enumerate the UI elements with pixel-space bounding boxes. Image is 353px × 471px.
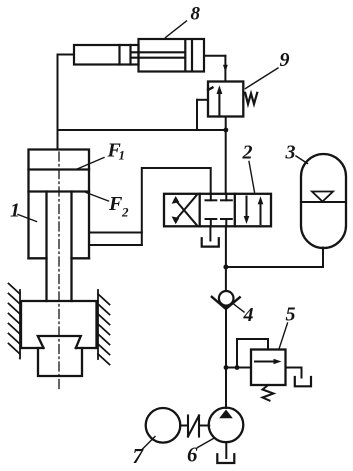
svg-text:6: 6: [187, 443, 198, 467]
coupling: [180, 425, 188, 427]
cylinder 1: [29, 150, 90, 302]
svg-text:F: F: [108, 193, 123, 215]
valve 9 internal arrow: [218, 92, 220, 117]
relief valve 5 spring: [263, 385, 274, 401]
wire to relief valve: [226, 367, 251, 369]
valve 2 (4/3 directional valve): [164, 194, 271, 227]
label leader F2: [86, 193, 109, 202]
valve 2 tank stub: [209, 226, 211, 240]
svg-text:8: 8: [191, 4, 201, 25]
svg-text:3: 3: [285, 142, 296, 164]
cylinder 8: [74, 39, 204, 72]
valve 2 centre position blocked ports: [206, 194, 232, 227]
wire main line valve2 to accumulator junction and check valve: [225, 226, 227, 291]
label leader 4: [233, 304, 244, 313]
wire check valve to pump: [225, 307, 227, 408]
pump 6: [209, 408, 244, 443]
valve 9 pilot line: [197, 99, 208, 101]
node junction dot y130: [224, 128, 229, 133]
tank symbol pump: [217, 454, 234, 463]
svg-text:1: 1: [10, 200, 20, 222]
wire accumulator branch: [226, 266, 323, 268]
svg-text:4: 4: [243, 304, 254, 326]
svg-text:2: 2: [242, 142, 253, 164]
label leader 8: [166, 21, 187, 38]
relief valve 5: [251, 350, 286, 386]
check valve 4: [219, 291, 234, 306]
ground hatched wall left: [9, 284, 21, 359]
press slab: [21, 301, 97, 376]
valve 9 (sequence valve): [208, 82, 243, 117]
relief valve 5 pilot line: [237, 339, 268, 368]
cylinder 1 port stub: [89, 232, 142, 234]
label leader 3: [296, 156, 308, 164]
wire horizontal rail y=130 to main line: [58, 129, 226, 131]
workpiece dovetail: [38, 336, 81, 348]
svg-text:9: 9: [280, 49, 290, 71]
relief valve 5 drain: [286, 368, 302, 378]
svg-text:5: 5: [286, 304, 296, 326]
svg-text:2: 2: [121, 205, 129, 220]
valve 2 right position arrows: [246, 197, 248, 219]
label leader 9: [246, 68, 279, 89]
valve 9 bottom port wire: [225, 117, 227, 195]
valve 9 spring: [245, 93, 257, 104]
label leader 2: [249, 162, 255, 193]
node relief junction: [224, 365, 229, 370]
wire F2 pipe to valve 2: [142, 168, 211, 245]
pump suction to tank: [225, 442, 227, 458]
svg-text:7: 7: [133, 444, 145, 468]
label leader 5: [279, 323, 288, 349]
label leader 6: [198, 439, 214, 448]
tank symbol under valve 2: [202, 238, 219, 246]
svg-text:1: 1: [119, 148, 126, 163]
accumulator 3: [301, 154, 346, 248]
centerline cylinder 1 (dash-dot): [58, 152, 60, 391]
label leader F1: [76, 158, 104, 170]
label leader 1: [18, 215, 37, 222]
wire cylinder 8 outlet to valve 9: [204, 55, 225, 57]
valve 2 left position crossed arrows: [175, 200, 197, 225]
label leader 7: [142, 437, 156, 451]
node accumulator junction: [223, 265, 228, 270]
wire from cylinder 8 rod to left rail: [58, 54, 75, 56]
tank symbol drain: [295, 377, 311, 386]
electric motor 7: [146, 408, 181, 443]
ground hatched wall right: [98, 290, 110, 365]
lower block: [38, 348, 82, 376]
wire left rail down to cylinder 1 top: [57, 55, 59, 150]
